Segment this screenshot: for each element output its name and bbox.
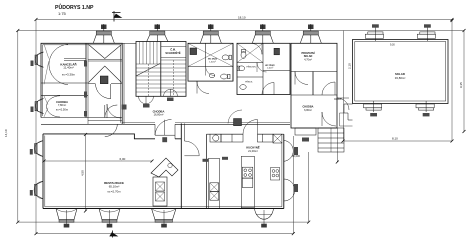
- wire left ext dim x36: [35, 20, 37, 234]
- svg-text:6,80m²: 6,80m²: [304, 109, 312, 112]
- hall cross vault: [88, 45, 122, 83]
- radiator corridor: [122, 105, 127, 110]
- stoop west of ext stair: [295, 128, 316, 135]
- sklad top window 1: [365, 24, 383, 41]
- window niche left 1: [31, 52, 44, 67]
- wall inner vertical: [312, 72, 314, 96]
- wall wc block right outer: [237, 43, 290, 94]
- wire sklad bottom dim y141: [343, 140, 452, 142]
- window niche left 4 (restaurant): [30, 181, 43, 199]
- wall hall bottom w door gap: [88, 83, 122, 85]
- kitchen right stove: [271, 168, 280, 181]
- stair diagonal: [136, 64, 160, 77]
- section arrow top: [112, 11, 121, 22]
- corridor walls: [122, 123, 290, 125]
- doors provozni block: [295, 72, 349, 127]
- wall sklad inner: [355, 42, 446, 102]
- exterior stair south of chodba2: [318, 128, 344, 152]
- sklad west stoop steps: [340, 104, 353, 126]
- label sklad: [395, 72, 406, 80]
- wall kitchen top: [207, 133, 284, 135]
- svg-text:7,80m²: 7,80m²: [58, 103, 66, 107]
- top window symbol 2: [147, 24, 168, 42]
- section arrow bottom: [110, 231, 117, 238]
- svg-text:2,10: 2,10: [348, 63, 352, 69]
- room label chodba1: [56, 100, 69, 112]
- wire bottom dim y222: [18, 221, 309, 223]
- room label kancelar: [60, 61, 77, 76]
- wall restaurant left: [42, 134, 44, 209]
- wire mid dim x293.3: [292, 136, 294, 234]
- wall stair outer: [136, 42, 186, 97]
- wall left wing outer: [41, 43, 122, 124]
- label kuchyne: [246, 145, 259, 154]
- door stair bottom left pair: [139, 96, 154, 107]
- svg-text:1:75: 1:75: [58, 11, 67, 16]
- label provozni sklad: [301, 52, 314, 61]
- svg-text:6,00: 6,00: [120, 157, 126, 161]
- svg-text:sv.=2,50m: sv.=2,50m: [56, 108, 69, 112]
- stair treads lower flight left: [136, 68, 161, 92]
- top window symbol 3: [200, 24, 221, 43]
- wc diagonals: [188, 43, 263, 66]
- chodba vault arc: [44, 96, 60, 117]
- door kitchen to corridor: [228, 110, 258, 134]
- label chodba big: [153, 110, 165, 117]
- wall wc partitions: [188, 66, 233, 68]
- wall kitchen left: [206, 134, 208, 208]
- svg-text:PŘEDS.: PŘEDS.: [245, 81, 253, 84]
- door vestibule exterior double swing: [105, 105, 118, 137]
- wire left ext dim x17.8: [17, 31, 19, 223]
- wc labels: [208, 58, 275, 84]
- sklad bottom window 2: [416, 101, 434, 116]
- svg-text:PŘEDSÍŇ: PŘEDSÍŇ: [246, 66, 256, 69]
- chimney restaurant wall: [162, 137, 167, 142]
- stair landing line: [136, 63, 161, 65]
- svg-text:4,70m²: 4,70m²: [304, 58, 312, 61]
- wire ext stair dim x337.3: [336, 128, 338, 162]
- bottom window bay 2: [99, 209, 120, 228]
- sklad bottom window 1: [364, 101, 382, 116]
- wall sklad outer: [353, 40, 449, 104]
- svg-text:16,80m²: 16,80m²: [154, 113, 164, 117]
- entry doors below wc block: [197, 43, 274, 94]
- svg-text:±0,000: ±0,000: [334, 98, 342, 101]
- wire right dim x464: [463, 31, 465, 132]
- wall rest kitchen divider: [180, 123, 182, 208]
- sklad top window 2: [417, 24, 435, 41]
- kitchen left counter: [209, 158, 220, 208]
- wall provozni sklad bottom: [291, 71, 337, 73]
- stair treads right col: [161, 60, 186, 92]
- top window symbol 5: [300, 24, 321, 43]
- wall wc block left outer: [188, 43, 233, 81]
- wire right dim x452: [451, 20, 453, 142]
- label chodba2: [303, 106, 314, 112]
- bar counter: [151, 158, 178, 206]
- wire top dim L1: [36, 19, 452, 21]
- wall stair center: [160, 42, 162, 97]
- wire gap dim x343.5: [343, 31, 345, 142]
- wire top dim L2: [18, 30, 464, 32]
- svg-text:65,10m²: 65,10m²: [109, 185, 120, 189]
- svg-text:1,10m²: 1,10m²: [267, 67, 274, 70]
- window niche left 3 (restaurant): [30, 141, 43, 157]
- fixtures wc left: [190, 48, 232, 79]
- radiators kancelar wall: [84, 61, 87, 117]
- wall chodba2 top: [291, 94, 337, 96]
- svg-text:1,60m²: 1,60m²: [209, 60, 216, 63]
- label schodiste box: [161, 47, 186, 58]
- bottom window bay 3: [152, 209, 177, 228]
- wire restaurant inner dim h: [44, 160, 152, 162]
- svg-text:9,30: 9,30: [390, 43, 395, 46]
- chimney kitchen wall: [234, 119, 242, 126]
- svg-text:9,35: 9,35: [459, 82, 463, 88]
- wall lightwell: [123, 43, 125, 124]
- door restaurant to kitchen: [184, 141, 199, 156]
- svg-text:8,10: 8,10: [392, 137, 398, 141]
- wall left wing inner: [43, 45, 121, 123]
- wall kitchen right: [283, 134, 285, 208]
- chimney hall: [100, 76, 108, 84]
- window niche left 2: [31, 99, 44, 114]
- stair rail lines: [148, 64, 150, 96]
- svg-text:sv.=3,30m: sv.=3,30m: [62, 72, 76, 76]
- svg-text:21,00m²: 21,00m²: [248, 149, 258, 153]
- kitchen island: [241, 156, 254, 208]
- wall kancelar chodba divider: [41, 82, 88, 84]
- label restaurace: [104, 181, 124, 193]
- svg-text:WC MUŽI: WC MUŽI: [208, 58, 218, 61]
- door hall to vestibule: [96, 84, 111, 99]
- svg-text:WC ŽENY: WC ŽENY: [265, 64, 275, 67]
- wall kancelar hall divider: [85, 43, 87, 117]
- svg-text:33,80m²: 33,80m²: [395, 76, 406, 80]
- svg-text:PŮDORYS 1.NP: PŮDORYS 1.NP: [55, 3, 94, 11]
- wire restaurant inner dim v: [85, 134, 87, 211]
- svg-text:14,10: 14,10: [4, 129, 8, 137]
- kancelar vault arc: [44, 44, 86, 84]
- kitchen right wall windows: [284, 140, 295, 201]
- door corridor to restaurant: [155, 119, 175, 138]
- wall provozni block outer: [291, 43, 337, 128]
- door stair bottom right pair: [164, 89, 178, 101]
- wall restaurant top: [43, 134, 181, 139]
- svg-text:4,50: 4,50: [81, 170, 85, 176]
- top window symbol 1: [93, 24, 114, 43]
- wall corridor bottom: [122, 123, 290, 125]
- wall restaurant inner: [45, 136, 282, 207]
- fixtures wc right: [237, 43, 279, 89]
- top window symbol 4: [252, 24, 273, 43]
- svg-text:11,40m²: 11,40m²: [63, 66, 73, 70]
- wall wing bottom: [41, 123, 122, 125]
- kitchen sink + top counters: [210, 134, 282, 143]
- small dim texts kitchen: [203, 159, 209, 162]
- wall chodba bottom: [41, 117, 122, 119]
- bottom window bay 1: [56, 209, 77, 228]
- label schodiste: [165, 47, 180, 56]
- door corridor left: [107, 104, 121, 118]
- wire bottom dim y233.6: [36, 233, 293, 235]
- svg-text:sv.=2,70m: sv.=2,70m: [107, 189, 121, 193]
- bottom window bay 4 rounded: [255, 209, 274, 228]
- wire mid dim x308.7: [308, 152, 310, 222]
- wall restaurant bottom: [43, 208, 284, 210]
- stair treads upper flight vertical: [140, 42, 158, 65]
- svg-text:18,10: 18,10: [238, 15, 246, 19]
